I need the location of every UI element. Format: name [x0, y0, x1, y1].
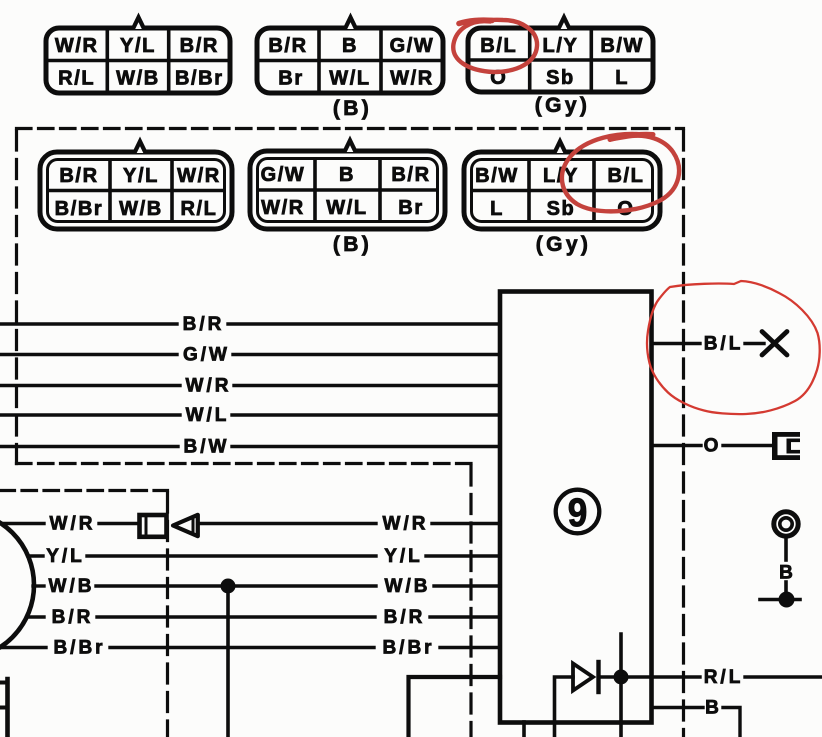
- bullet connector (concentric rings) top right: [774, 512, 798, 536]
- component U9 body (CDI unit): [500, 292, 652, 723]
- junction dot (inside U9): [614, 670, 629, 685]
- svg-text:W/R: W/R: [383, 514, 429, 535]
- svg-text:(B): (B): [333, 233, 372, 256]
- wire B/L termination X (not connected): [762, 332, 787, 356]
- harness dashed boundary: right edge: [682, 131, 685, 737]
- svg-text:O: O: [704, 436, 722, 457]
- svg-text:W/R: W/R: [390, 68, 434, 90]
- connector P6 cell labels: [475, 165, 644, 220]
- wire W/B (lower) stub from circle: [33, 584, 44, 587]
- connector block P4 (2nd row left, double shell): [40, 152, 232, 229]
- svg-text:W/L: W/L: [326, 197, 367, 219]
- vertical wire through junction (inside U9): [619, 634, 623, 737]
- connector P3 alignment arrow: [556, 13, 572, 30]
- connector P4 cell labels: [55, 165, 221, 220]
- wire W/R segment into U9: [432, 522, 500, 525]
- svg-text:W/R: W/R: [261, 197, 305, 219]
- wire G/W (upper) left segment: [0, 353, 177, 356]
- wire W/R (upper) left segment: [0, 384, 180, 387]
- red pen annotation: circle around open B/L wire and X: [647, 281, 820, 414]
- svg-text:Br: Br: [278, 68, 303, 90]
- wire W/R right segment: [234, 384, 500, 387]
- wire W/R segment to horn: [99, 522, 138, 525]
- connector fragment (bottom left edge): [0, 679, 8, 737]
- svg-text:B/Br: B/Br: [175, 68, 224, 90]
- svg-text:Y/L: Y/L: [46, 546, 85, 567]
- svg-text:(Gy): (Gy): [536, 233, 592, 256]
- harness dashed boundary: bottom-left edge: [17, 462, 472, 465]
- connector P2 cell labels: [268, 35, 434, 90]
- svg-text:B/R: B/R: [52, 607, 94, 628]
- wire B/R (lower) stub from circle: [27, 615, 44, 618]
- svg-text:W/L: W/L: [186, 405, 230, 426]
- svg-text:B: B: [705, 698, 722, 719]
- wire B corner segment down: [723, 708, 740, 737]
- wire B/Br segment into U9: [440, 646, 500, 649]
- wire Y/L middle segment: [87, 554, 376, 557]
- red pen annotation: circle around B/L cell (connector P6): [562, 134, 679, 211]
- svg-text:G/W: G/W: [261, 164, 306, 186]
- svg-text:Y/L: Y/L: [384, 546, 423, 567]
- wire B/R right segment: [228, 322, 500, 325]
- wire B/Br (lower) from circle: [0, 646, 46, 649]
- wire B/Br middle segment: [110, 646, 374, 649]
- svg-text:(Gy): (Gy): [535, 94, 591, 117]
- svg-text:G/W: G/W: [183, 345, 230, 366]
- svg-text:W/L: W/L: [329, 68, 370, 90]
- wire W/R middle segment: [201, 522, 377, 525]
- connector P5 alignment arrow: [342, 136, 358, 153]
- connector P6 alignment arrow: [552, 137, 568, 154]
- svg-text:B/R: B/R: [183, 314, 225, 335]
- wire W/B middle segment: [96, 584, 376, 587]
- connector P5 cell labels: [261, 164, 431, 219]
- wire Y/L (lower) stub from circle: [28, 554, 43, 557]
- svg-text:Sb: Sb: [546, 67, 575, 89]
- connector P4 alignment arrow: [132, 137, 148, 154]
- svg-text:Br: Br: [398, 197, 423, 219]
- wire Y/L segment into U9: [426, 554, 500, 557]
- horn H1 (body): [140, 515, 167, 537]
- svg-text:W/B: W/B: [116, 68, 160, 90]
- svg-text:W/R: W/R: [55, 35, 99, 57]
- svg-text:B/Br: B/Br: [55, 198, 104, 220]
- wire B lower segment: [784, 582, 788, 599]
- svg-text:W/B: W/B: [119, 198, 163, 220]
- svg-text:Y/L: Y/L: [123, 165, 159, 187]
- svg-text:B/Br: B/Br: [382, 638, 434, 659]
- U9 bottom pin stub: [522, 722, 526, 737]
- wire W/R (lower) from circle: [0, 522, 44, 525]
- wire B/R middle segment: [97, 615, 375, 618]
- wire B/W right segment: [232, 445, 500, 448]
- svg-text:B/R: B/R: [391, 164, 430, 186]
- wire W/L right segment: [232, 413, 500, 416]
- wire B stub from U9: [652, 706, 704, 709]
- connector terminal on wire O (male spade): [772, 432, 800, 460]
- wire B/L end segment: [745, 342, 764, 345]
- component U9 circled designator 9: [556, 490, 600, 535]
- svg-text:R/L: R/L: [58, 68, 95, 90]
- svg-text:G/W: G/W: [390, 35, 435, 57]
- svg-text:B/L: B/L: [607, 165, 644, 187]
- wire W/L (upper) left segment: [0, 413, 180, 416]
- svg-text:L: L: [490, 198, 504, 220]
- lower-left harness dashed boundary: right edge: [166, 493, 169, 737]
- connector P1 cell labels: [55, 35, 224, 90]
- svg-text:B/R: B/R: [384, 607, 426, 628]
- diode D1 anode wire (inside U9): [555, 677, 574, 737]
- connector block P6 (2nd row right, Gy, double shell): [464, 152, 660, 229]
- svg-text:B/L: B/L: [704, 334, 744, 355]
- svg-text:B/W: B/W: [600, 35, 644, 57]
- harness dashed boundary: left edge: [15, 131, 18, 464]
- svg-text:W/B: W/B: [49, 576, 95, 597]
- red pen annotation: circle around B/L cell (connector P3): [453, 20, 537, 72]
- instrument circle (left, partial): [0, 511, 34, 659]
- svg-text:R/L: R/L: [704, 667, 744, 688]
- harness dashed boundary: top edge: [17, 127, 684, 130]
- svg-text:B/L: B/L: [480, 35, 517, 57]
- sub-unit box attached to U9 (bottom left): [409, 677, 501, 737]
- wire W/B segment into U9: [434, 584, 500, 587]
- horn H1 (flare): [173, 515, 198, 536]
- svg-text:B/R: B/R: [180, 35, 219, 57]
- diode D1: [573, 662, 599, 692]
- wire from bullet connector down: [784, 538, 788, 560]
- svg-text:B/Br: B/Br: [53, 638, 105, 659]
- svg-text:B: B: [339, 164, 355, 186]
- svg-text:W/R: W/R: [50, 514, 96, 535]
- wire from junction to U9 right edge: [621, 675, 652, 679]
- connector P3 cell labels: [480, 35, 644, 89]
- svg-text:9: 9: [568, 490, 588, 535]
- svg-text:B/W: B/W: [184, 437, 230, 458]
- wire R/L stub from U9: [652, 675, 701, 678]
- wire O (right of U9) stub from box: [652, 444, 702, 447]
- connector P2 alignment arrow: [343, 13, 359, 30]
- wire B/W (upper) left segment: [0, 445, 178, 448]
- connector block P5 (2nd row middle, B, double shell): [250, 151, 445, 229]
- wire O right segment: [723, 444, 773, 447]
- svg-text:B/W: B/W: [475, 165, 519, 187]
- svg-text:B/R: B/R: [59, 165, 98, 187]
- connector block P3 (top right, Gy): [468, 28, 653, 92]
- svg-text:W/R: W/R: [177, 165, 221, 187]
- junction dot on W/B wire: [221, 579, 236, 594]
- wire G/W right segment: [233, 353, 500, 356]
- branch wire down from W/B junction: [226, 586, 230, 737]
- svg-text:L/Y: L/Y: [543, 35, 579, 57]
- harness dashed boundary: middle vertical edge: [469, 466, 472, 737]
- svg-text:W/B: W/B: [385, 576, 431, 597]
- horizontal wire at junction: [760, 598, 800, 602]
- wire B/R segment into U9: [430, 615, 500, 618]
- svg-text:W/R: W/R: [186, 376, 232, 397]
- svg-text:(B): (B): [333, 97, 372, 120]
- wire B/L (right of U9) stub from box: [652, 342, 701, 345]
- svg-text:R/L: R/L: [180, 198, 217, 220]
- svg-text:Y/L: Y/L: [120, 35, 156, 57]
- connector P1 alignment arrow: [131, 13, 147, 30]
- lower-left harness dashed boundary: top edge: [0, 489, 168, 492]
- connector block P2 (top middle, B): [257, 28, 443, 93]
- connector block P1 (top left): [46, 28, 230, 93]
- diode D1 cathode wire to junction: [600, 675, 621, 679]
- svg-text:B/R: B/R: [268, 35, 307, 57]
- svg-text:L: L: [615, 67, 629, 89]
- svg-text:B: B: [342, 35, 358, 57]
- junction dot: [779, 592, 795, 608]
- wire B/R (upper) left segment: [0, 322, 177, 325]
- wire R/L right segment: [745, 675, 822, 678]
